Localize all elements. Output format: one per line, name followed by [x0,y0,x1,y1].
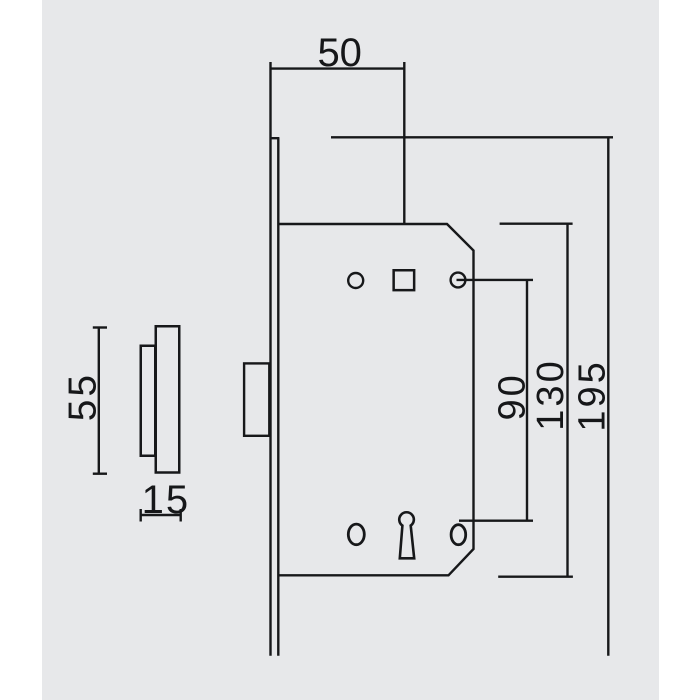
50 dimension line [271,67,405,69]
side view: faceplate slab [156,326,180,472]
bottom-left oval hole [348,524,364,545]
55 bottom tick [93,473,107,475]
spindle square hole [394,270,415,290]
side view: lock case slab [141,346,156,456]
faceplate top extension line (195 dim) [331,136,613,138]
svg-text:15: 15 [142,478,191,522]
svg-text:55: 55 [62,372,105,421]
svg-text:130: 130 [530,358,572,430]
handle hub circle (top left) [348,273,363,288]
faceplate front edge / 50-dim left extension [269,62,271,656]
latch bolt [244,363,269,435]
195 dimension line [607,137,609,655]
90 top extension line [457,279,534,281]
15 dimension line [141,514,181,516]
lock body outline [278,224,473,575]
130 dimension line [566,224,568,577]
15 left tick [139,509,141,522]
130 bottom extension line [498,576,573,578]
15 right tick [179,509,181,522]
90 bottom extension line [459,520,533,522]
faceplate top cap [270,137,280,139]
55 top tick [93,326,107,328]
55 dimension line [98,328,100,474]
svg-text:195: 195 [572,359,614,431]
50-dim right extension (through spindle center) [403,62,405,224]
svg-text:90: 90 [491,372,533,420]
faceplate back edge [277,138,279,656]
svg-text:50: 50 [317,31,362,75]
keyhole [399,512,414,558]
fixing hole circle (top right) [451,273,466,288]
130 top extension line [500,222,573,224]
bottom-right oval hole [451,525,466,545]
90 dimension line [526,280,528,521]
